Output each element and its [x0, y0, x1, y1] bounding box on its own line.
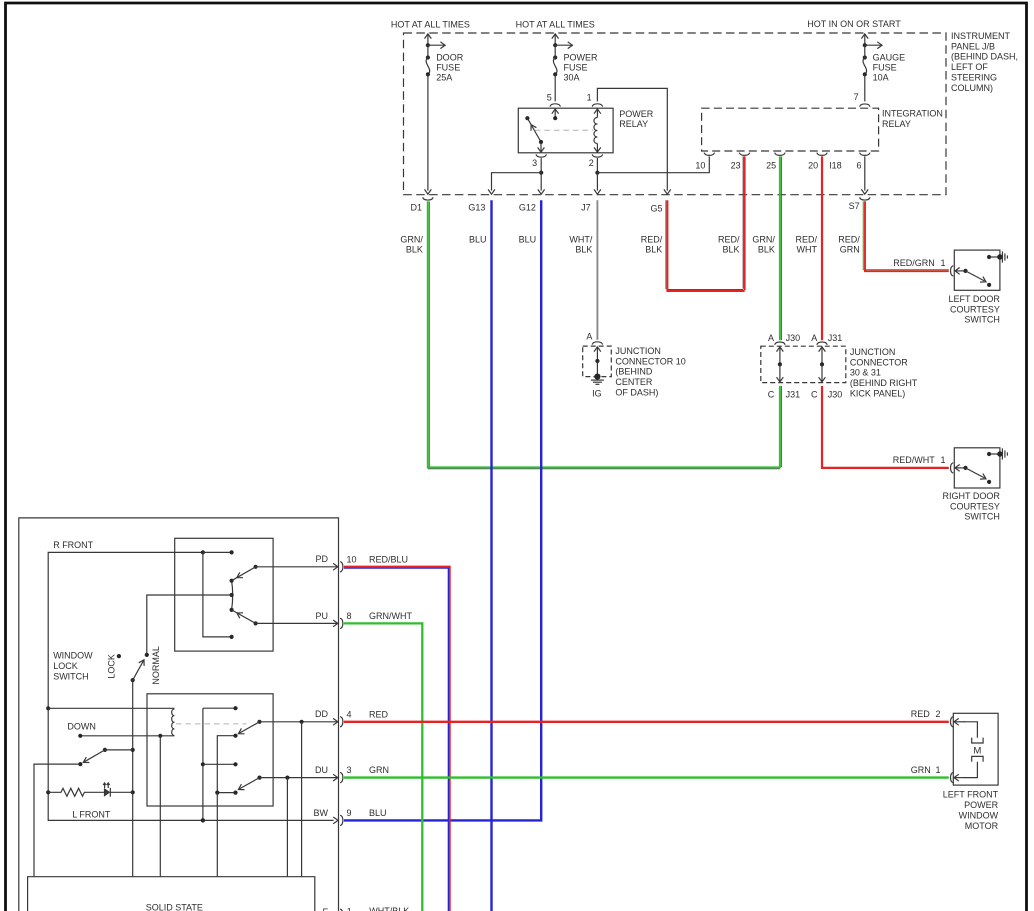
- svg-text:DOOR: DOOR: [436, 53, 464, 63]
- svg-text:SOLID STATE: SOLID STATE: [146, 902, 203, 911]
- svg-text:23: 23: [731, 160, 741, 170]
- arrow into J/B border at G13: [488, 189, 495, 194]
- label LEFT FRONT POWER WINDOW MOTOR: [943, 790, 999, 831]
- junction connector 10 dashed box: [583, 346, 612, 377]
- svg-text:BW: BW: [314, 808, 329, 818]
- svg-text:WHT/BLK: WHT/BLK: [369, 906, 409, 911]
- box2 left column: [202, 708, 204, 820]
- right door switch ground link: [987, 452, 991, 456]
- wire label GRN/BLK (pin25): [752, 234, 775, 254]
- svg-text:WINDOW: WINDOW: [959, 811, 999, 821]
- label INTEGRATION RELAY: [882, 108, 943, 128]
- svg-text:RED/: RED/: [641, 234, 663, 244]
- svg-text:3: 3: [532, 158, 537, 168]
- svg-text:GRN: GRN: [369, 765, 389, 775]
- ground node IG: [594, 374, 600, 380]
- svg-text:WHT: WHT: [797, 245, 818, 255]
- box2 center contact stub: [203, 763, 236, 765]
- node gauge fuse top branch: [863, 43, 867, 47]
- box1 center contact column: [232, 581, 233, 610]
- wire GRN/BLK pin25 to junction connector: [780, 156, 782, 340]
- contact LOCK: [117, 654, 121, 658]
- svg-text:BLK: BLK: [758, 245, 775, 255]
- svg-text:8: 8: [347, 611, 352, 621]
- svg-text:S7: S7: [849, 201, 860, 211]
- wire pin6 to S7: [864, 156, 866, 190]
- wire JC10 to ground: [596, 361, 598, 377]
- LED arrows: [104, 783, 106, 788]
- svg-text:DD: DD: [315, 709, 328, 719]
- svg-text:BLU: BLU: [469, 234, 487, 244]
- svg-text:6: 6: [856, 160, 861, 170]
- fuse GAUGE FUSE 10A: [863, 55, 867, 59]
- wire pin1 loop to G5: [597, 88, 667, 190]
- svg-text:IG: IG: [592, 389, 602, 399]
- wire coil bottom junction to solid state: [159, 736, 161, 877]
- wire junction to J7: [596, 173, 598, 191]
- connector D1: [423, 197, 433, 200]
- wire WHT/BLK J7 to junction connector 10: [596, 200, 598, 340]
- wire junction to G12: [540, 173, 542, 191]
- svg-text:WHT/: WHT/: [569, 234, 592, 244]
- label JUNCTION CONNECTOR 10 (BEHIND CENTER OF DASH): [615, 346, 685, 398]
- integration relay pin 25 connector: [775, 153, 785, 156]
- pin 1 connector: [592, 104, 602, 107]
- relay switch arm: [527, 118, 541, 142]
- wire pin2 to junction: [596, 158, 598, 173]
- svg-text:30 & 31: 30 & 31: [850, 368, 881, 378]
- wire BLU G13: [490, 200, 492, 911]
- svg-text:25A: 25A: [436, 72, 452, 82]
- svg-text:J31: J31: [828, 333, 843, 343]
- pin 3 connector: [536, 154, 546, 157]
- L front switch box: [147, 694, 273, 806]
- connector A J31: [817, 342, 827, 345]
- node resistor left: [46, 790, 50, 794]
- wire junction to G13: [492, 173, 542, 191]
- svg-text:RED/: RED/: [718, 234, 740, 244]
- left door switch contact: [987, 283, 991, 287]
- arrow into J/B border at J7: [594, 189, 601, 194]
- wire lock pivot down to solid state: [132, 680, 134, 877]
- svg-text:J30: J30: [828, 390, 843, 400]
- wire GRN/BLK from D1 to junction (green with black stripe): [428, 202, 430, 468]
- svg-text:A: A: [768, 333, 774, 343]
- branch arrow right (power fuse): [555, 44, 573, 46]
- svg-text:INSTRUMENT: INSTRUMENT: [951, 31, 1010, 41]
- svg-text:LEFT DOOR: LEFT DOOR: [949, 294, 1001, 304]
- wire label RED/WHT (pin20): [795, 234, 817, 254]
- wire down contact left and down: [34, 764, 80, 877]
- connector 2 motor: [951, 717, 954, 727]
- wire label RED/BLK (pin23): [718, 234, 740, 254]
- wire PU arm to pin: [256, 622, 339, 624]
- relay box POWER RELAY: [518, 108, 613, 153]
- svg-text:10A: 10A: [873, 72, 889, 82]
- svg-text:G12: G12: [519, 202, 536, 212]
- wire RED/WHT pin20 to junction connector: [821, 156, 823, 340]
- svg-text:GRN/: GRN/: [400, 234, 423, 244]
- wire RED/BLU from PD: [344, 567, 450, 911]
- wire RED/BLK G5 leg: [665, 200, 667, 289]
- wire RED/WHT below junction connector to right door switch: [822, 386, 949, 468]
- svg-text:COURTESY: COURTESY: [950, 304, 1000, 314]
- svg-text:LOCK: LOCK: [106, 654, 116, 679]
- arrow into J/B border at D1: [425, 189, 432, 194]
- left door courtesy switch box: [954, 250, 1000, 290]
- connector 1 right door switch: [951, 463, 954, 473]
- right door switch contact: [987, 480, 991, 484]
- resistor R: [48, 788, 104, 796]
- ground symbol IG: [591, 379, 604, 381]
- junction connector 30 & 31 dashed box: [761, 346, 846, 382]
- label POWER RELAY: [619, 109, 654, 129]
- svg-text:R FRONT: R FRONT: [53, 540, 93, 550]
- svg-text:NORMAL: NORMAL: [151, 646, 161, 685]
- wire DU arm to pin: [260, 777, 339, 779]
- wire RED from DD to motor: [344, 721, 949, 723]
- wire coil feed: [48, 707, 174, 709]
- node door fuse top branch: [426, 43, 430, 47]
- left door switch ground link: [987, 255, 991, 259]
- label LEFT DOOR COURTESY SWITCH: [949, 294, 1001, 325]
- integration relay pin 23 connector: [739, 153, 749, 156]
- svg-text:A: A: [586, 331, 592, 341]
- wire GRN/BLK pin25 below junction connector: [780, 386, 782, 467]
- wire power fuse to relay pin 5: [554, 74, 556, 101]
- node coil bottom junction: [158, 734, 162, 738]
- svg-text:7: 7: [854, 92, 859, 102]
- box1 PU arm: [254, 621, 258, 625]
- box2 DU arm: [257, 776, 261, 780]
- wire R front feed / BW bus: [48, 552, 333, 820]
- svg-text:(BEHIND DASH,: (BEHIND DASH,: [951, 52, 1018, 62]
- wire junction to integration pin 10: [597, 156, 709, 172]
- svg-text:LEFT OF: LEFT OF: [951, 62, 988, 72]
- svg-text:RED: RED: [369, 709, 389, 719]
- wire PD arm to pin: [256, 566, 339, 568]
- svg-text:10: 10: [695, 160, 705, 170]
- label RIGHT DOOR COURTESY SWITCH: [943, 491, 1001, 522]
- wire RED/BLK pin23 leg: [742, 156, 744, 288]
- connector S7: [860, 197, 870, 200]
- svg-text:C: C: [768, 390, 775, 400]
- svg-text:RED/GRN: RED/GRN: [893, 258, 935, 268]
- svg-text:FUSE: FUSE: [436, 63, 460, 73]
- wire coil bottom: [80, 735, 174, 737]
- contact DD: [233, 734, 237, 738]
- svg-text:F: F: [323, 907, 329, 911]
- solid state box: [28, 877, 315, 911]
- wire door fuse to D1: [427, 74, 429, 190]
- svg-text:2: 2: [589, 158, 594, 168]
- wire feed arrow up (gauge fuse): [864, 34, 866, 46]
- motor terminal 2 arrow: [954, 721, 965, 723]
- ground symbol (left door): [1001, 251, 1003, 262]
- svg-text:KICK PANEL): KICK PANEL): [850, 389, 905, 399]
- svg-text:SWITCH: SWITCH: [964, 512, 1000, 522]
- wire GRN from DU to motor: [344, 776, 949, 778]
- left door switch arm: [966, 271, 985, 281]
- svg-text:1: 1: [940, 258, 945, 268]
- down relay coil: [172, 709, 175, 736]
- wire label WHT/BLK (J7): [569, 234, 592, 254]
- svg-text:LOCK: LOCK: [53, 661, 78, 671]
- wire feed arrow up (power fuse): [554, 34, 556, 46]
- wire label RED/GRN (S7): [838, 234, 860, 254]
- box1 PD arm: [254, 565, 258, 569]
- node DU riser junction: [285, 776, 289, 780]
- svg-text:BLK: BLK: [722, 245, 739, 255]
- svg-text:HOT IN ON OR START: HOT IN ON OR START: [807, 19, 901, 29]
- svg-text:GAUGE: GAUGE: [873, 53, 906, 63]
- svg-text:D1: D1: [410, 202, 422, 212]
- connector 1 left door switch: [951, 266, 954, 276]
- svg-text:CONNECTOR: CONNECTOR: [850, 357, 908, 367]
- label GAUGE FUSE 10A: [873, 53, 906, 83]
- svg-text:J7: J7: [581, 202, 591, 212]
- right door switch terminal arrow: [955, 467, 966, 469]
- box2 up contact stub: [203, 707, 236, 709]
- instrument panel J/B dashed box: [404, 33, 947, 195]
- connector A junction connector 10: [592, 342, 602, 345]
- node pin3 junction: [539, 171, 543, 175]
- pin 2 connector: [592, 154, 602, 157]
- wire pin3 to junction: [540, 158, 542, 173]
- svg-text:M: M: [973, 746, 981, 757]
- down switch arm: [103, 748, 107, 752]
- svg-text:4: 4: [347, 709, 352, 719]
- node pivot/DOWN-arm junction: [131, 748, 135, 752]
- svg-text:BLK: BLK: [645, 245, 662, 255]
- contact DU: [233, 791, 237, 795]
- motor terminal 1 arrow: [964, 762, 977, 778]
- svg-text:RED/: RED/: [838, 234, 860, 244]
- wire down bus to solid state: [216, 793, 218, 877]
- svg-text:POWER: POWER: [964, 800, 999, 810]
- svg-text:PD: PD: [315, 554, 328, 564]
- node JC10: [595, 359, 599, 363]
- svg-text:WINDOW: WINDOW: [53, 651, 93, 661]
- left front power window motor box: [953, 713, 998, 785]
- svg-text:GRN/WHT: GRN/WHT: [369, 611, 412, 621]
- svg-text:HOT AT ALL TIMES: HOT AT ALL TIMES: [516, 20, 595, 30]
- relay link dashed line: [535, 129, 593, 131]
- svg-text:RED/: RED/: [795, 234, 817, 244]
- wire label GRN/BLK (D1): [400, 234, 423, 254]
- svg-text:FUSE: FUSE: [873, 63, 897, 73]
- integration relay dashed box: [702, 108, 879, 151]
- motor brush top: [972, 738, 983, 743]
- wire label RED/BLK (G5): [641, 234, 663, 254]
- svg-text:GRN: GRN: [840, 245, 860, 255]
- svg-text:RED: RED: [911, 709, 931, 719]
- box2 relay link dashed: [176, 723, 247, 725]
- node DD riser junction: [300, 720, 304, 724]
- relay pin5 internal arrow: [554, 109, 556, 119]
- wire GRN/WHT from PU: [344, 623, 422, 911]
- svg-text:HOT AT ALL TIMES: HOT AT ALL TIMES: [391, 20, 470, 30]
- svg-text:1: 1: [587, 93, 592, 103]
- integration relay pin 10 connector: [704, 153, 714, 156]
- wire normal contact to box1 center: [147, 595, 232, 655]
- svg-text:RED/BLU: RED/BLU: [369, 554, 408, 564]
- svg-text:2: 2: [935, 709, 940, 719]
- fuse DOOR FUSE 25A: [426, 55, 430, 59]
- svg-text:GRN/: GRN/: [752, 234, 775, 244]
- wire DD arm to pin: [260, 721, 339, 723]
- svg-text:9: 9: [347, 808, 352, 818]
- contact NORMAL: [145, 653, 149, 657]
- svg-text:FUSE: FUSE: [564, 63, 588, 73]
- svg-text:LEFT FRONT: LEFT FRONT: [943, 790, 999, 800]
- integration relay pin 6 connector: [860, 153, 870, 156]
- svg-text:C: C: [811, 390, 818, 400]
- JC10 internal arrow: [596, 347, 598, 361]
- svg-text:BLK: BLK: [406, 245, 423, 255]
- wire RED/GRN S7 to left door switch: [863, 201, 949, 269]
- wire gauge fuse to integration relay pin 7: [864, 74, 866, 101]
- node box1 feed junction: [201, 550, 205, 554]
- svg-text:GRN: GRN: [911, 765, 931, 775]
- svg-text:PANEL J/B: PANEL J/B: [951, 41, 995, 51]
- box1 left bypass wire: [203, 552, 232, 637]
- svg-text:(BEHIND: (BEHIND: [615, 367, 653, 377]
- diode (LED) D: [104, 788, 110, 797]
- node pivot/resistor junction: [131, 790, 135, 794]
- svg-text:I18: I18: [829, 160, 842, 170]
- motor brush bottom: [972, 756, 983, 761]
- arrow into J/B border at G5: [664, 189, 671, 194]
- svg-text:POWER: POWER: [619, 109, 654, 119]
- box2 down bus: [217, 736, 235, 793]
- svg-text:(BEHIND RIGHT: (BEHIND RIGHT: [850, 378, 918, 388]
- box2 DD arm: [257, 720, 261, 724]
- label WINDOW LOCK SWITCH: [53, 651, 93, 682]
- arrow into J/B border at S7: [861, 189, 868, 194]
- relay switch contact: [525, 116, 529, 120]
- pin 7 connector: [860, 104, 870, 107]
- svg-text:5: 5: [547, 93, 552, 103]
- svg-text:1: 1: [935, 765, 940, 775]
- svg-text:JUNCTION: JUNCTION: [615, 346, 661, 356]
- svg-text:CENTER: CENTER: [615, 377, 653, 387]
- label INSTRUMENT PANEL J/B (BEHIND DASH, LEFT OF STEERING COLUMN): [951, 31, 1018, 93]
- svg-text:DU: DU: [315, 765, 328, 775]
- svg-text:J31: J31: [786, 390, 801, 400]
- node coil feed: [46, 706, 50, 710]
- fuse POWER FUSE 30A: [553, 55, 557, 59]
- wire DU riser to solid state: [286, 778, 288, 877]
- power window master switch box: [19, 518, 339, 911]
- JC31 internal arrow and node: [821, 347, 823, 365]
- wire BLU G12 to BW: [344, 200, 541, 820]
- label POWER FUSE 30A: [564, 53, 599, 83]
- wire feed arrow up (door fuse): [427, 34, 429, 46]
- contact down arm lower: [78, 762, 82, 766]
- branch arrow right (door fuse): [428, 44, 446, 46]
- svg-text:G5: G5: [650, 203, 662, 213]
- R front switch box: [175, 538, 273, 651]
- svg-text:COLUMN): COLUMN): [951, 83, 993, 93]
- window lock switch arm: [131, 678, 135, 682]
- svg-text:CONNECTOR 10: CONNECTOR 10: [615, 356, 685, 366]
- left door switch terminal arrow: [955, 270, 966, 272]
- wire down arm to pivot: [105, 749, 133, 751]
- pin 5 connector: [550, 104, 560, 107]
- node BW bus junction: [201, 818, 205, 822]
- connector 1 motor: [951, 772, 954, 782]
- svg-text:30A: 30A: [564, 72, 580, 82]
- svg-text:20: 20: [808, 160, 818, 170]
- svg-text:25: 25: [766, 160, 776, 170]
- svg-text:1: 1: [940, 455, 945, 465]
- ground symbol (right door): [1001, 448, 1003, 459]
- box1 upper contact stub: [203, 551, 232, 553]
- node power fuse top branch: [553, 43, 557, 47]
- JC30 internal arrow and node: [779, 347, 781, 365]
- right door switch arm: [966, 468, 985, 478]
- relay coil: [596, 109, 598, 118]
- relay arm to pin3 arrow: [540, 142, 542, 152]
- svg-text:BLU: BLU: [519, 234, 537, 244]
- svg-text:RIGHT DOOR: RIGHT DOOR: [943, 491, 1001, 501]
- svg-text:INTEGRATION: INTEGRATION: [882, 108, 943, 118]
- svg-text:RELAY: RELAY: [882, 119, 911, 129]
- arrow into J/B border at G12: [538, 189, 545, 194]
- svg-text:1: 1: [347, 907, 352, 911]
- contact DOWN: [78, 734, 82, 738]
- svg-text:SWITCH: SWITCH: [964, 315, 1000, 325]
- svg-text:OF DASH): OF DASH): [615, 388, 658, 398]
- relay switch arm pivot: [539, 140, 543, 144]
- svg-text:STEERING: STEERING: [951, 73, 997, 83]
- wire DD riser to solid state: [301, 722, 303, 877]
- svg-text:RELAY: RELAY: [619, 119, 648, 129]
- svg-text:3: 3: [347, 765, 352, 775]
- branch arrow right (gauge fuse): [865, 44, 883, 46]
- BW pin arrow: [333, 817, 338, 824]
- svg-text:JUNCTION: JUNCTION: [850, 347, 896, 357]
- connector A J30: [775, 342, 785, 345]
- svg-text:BLU: BLU: [369, 808, 387, 818]
- svg-text:G13: G13: [468, 202, 485, 212]
- svg-text:L FRONT: L FRONT: [72, 809, 111, 819]
- label JUNCTION CONNECTOR 30 & 31 (BEHIND RIGHT KICK PANEL): [850, 347, 918, 399]
- svg-text:PU: PU: [315, 611, 328, 621]
- svg-text:10: 10: [347, 554, 357, 564]
- svg-text:J30: J30: [786, 333, 801, 343]
- svg-text:MOTOR: MOTOR: [965, 821, 999, 831]
- svg-text:BLK: BLK: [575, 245, 592, 255]
- svg-text:RED/WHT: RED/WHT: [893, 455, 935, 465]
- wire RED/BLK U bottom: [666, 290, 744, 292]
- svg-text:A: A: [811, 333, 817, 343]
- svg-text:SWITCH: SWITCH: [53, 671, 88, 681]
- svg-text:COURTESY: COURTESY: [950, 501, 1000, 511]
- integration relay pin 20 connector: [817, 153, 827, 156]
- label DOOR FUSE 25A: [436, 53, 464, 83]
- svg-text:POWER: POWER: [564, 53, 599, 63]
- node pin2 junction: [595, 171, 599, 175]
- svg-text:DOWN: DOWN: [67, 722, 96, 732]
- right door courtesy switch box: [954, 448, 1000, 488]
